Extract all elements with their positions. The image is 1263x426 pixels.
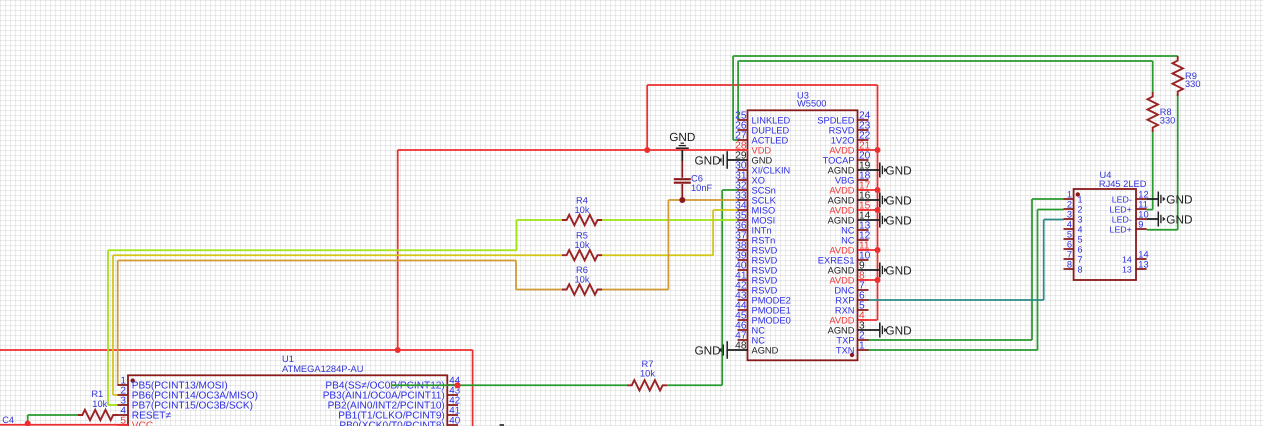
svg-text:14: 14	[1138, 250, 1148, 260]
U3 pin 30 XI/CLKIN	[735, 161, 790, 176]
U4 pin 7	[1064, 250, 1083, 265]
resistor R5 10k	[562, 231, 602, 261]
wire PB5 jog down	[515, 261, 517, 290]
U3 pin 35 MOSI	[735, 211, 775, 226]
wire PB4/SS net from inside U1 to R7	[392, 384, 628, 386]
svg-text:R6: R6	[576, 265, 588, 275]
svg-text:VCC: VCC	[132, 421, 153, 426]
wire R9 to RJ45 LED+ pin 9	[1177, 94, 1179, 230]
svg-text:VDD: VDD	[752, 145, 772, 155]
svg-text:6: 6	[1078, 244, 1083, 254]
junction at U1 pin 44	[454, 382, 460, 388]
wire LINKLED net: top horizontal to R8	[738, 60, 1153, 62]
resistor R9 330	[1173, 56, 1201, 96]
U3 pin 24 SPDLED	[817, 111, 870, 126]
svg-text:GND: GND	[885, 263, 911, 277]
svg-text:GND: GND	[1166, 192, 1192, 206]
U4 pin 10 LED-	[1112, 210, 1149, 225]
U3 pin 42 RSVD	[735, 281, 777, 296]
svg-text:TXP: TXP	[836, 335, 854, 345]
U3 pin 13 NC	[841, 221, 871, 236]
U3 pin 29 GND	[735, 151, 772, 166]
wire VDD vertical drop to pin 28 row	[646, 85, 648, 150]
U4 pin 13 13	[1122, 260, 1149, 275]
U3 pin1-corner dot	[850, 353, 854, 357]
svg-text:2: 2	[1078, 204, 1083, 214]
svg-text:10k: 10k	[640, 368, 655, 378]
U3 pin 41 RSVD	[735, 271, 777, 286]
svg-text:RXP: RXP	[835, 295, 854, 305]
junction AVDD rail pin 17	[875, 187, 881, 193]
svg-text:GND: GND	[885, 323, 911, 337]
resistor R6 10k	[562, 265, 602, 295]
svg-text:6: 6	[1067, 240, 1072, 250]
resistor R1 10k	[78, 389, 118, 420]
U4 pin 14 14	[1122, 250, 1149, 265]
svg-text:RSTn: RSTn	[752, 235, 776, 245]
svg-text:SPDLED: SPDLED	[817, 115, 854, 125]
svg-text:R1: R1	[91, 389, 103, 399]
svg-text:AGND: AGND	[828, 195, 855, 205]
wire AVDD stub connectors to rail	[858, 150, 878, 320]
U4 pin 3	[1064, 210, 1083, 225]
svg-text:C4: C4	[2, 415, 14, 425]
svg-text:PMODE2: PMODE2	[752, 295, 791, 305]
ground symbol at U3 AGND y=170	[858, 163, 912, 178]
U3 pin 48 AGND	[735, 341, 778, 356]
svg-text:AVDD: AVDD	[829, 275, 854, 285]
svg-text:10nF: 10nF	[691, 183, 713, 193]
wire SCLK vertical x=668	[667, 200, 669, 290]
U3 pin 10 EXRES1	[818, 251, 871, 266]
svg-text:R5: R5	[576, 231, 588, 241]
junction AVDD rail pin 11	[875, 247, 881, 253]
wire ACTLED joint into pin 27 stub	[733, 139, 738, 141]
svg-text:13: 13	[1138, 260, 1148, 270]
U3 pin 14 AGND	[828, 211, 871, 226]
U3 pin 1 TXN	[836, 341, 869, 356]
U3 pin 46 NC	[735, 321, 765, 336]
svg-text:10k: 10k	[575, 240, 590, 250]
U3 pin 4 AVDD	[829, 311, 868, 326]
svg-text:5: 5	[1067, 230, 1072, 240]
U1 pin 41 PB1(T1/CLKO/PCINT9)	[338, 406, 460, 422]
U4 pin 9 LED+	[1110, 220, 1147, 235]
U3 pin 15 AVDD	[829, 201, 870, 216]
U3 pin 43 PMODE2	[735, 291, 791, 306]
wire R8 to RJ45 LED+ pin 11	[1152, 131, 1154, 210]
svg-text:XI/CLKIN: XI/CLKIN	[752, 165, 791, 175]
wire TXN net: U3 pin 1 to U4 pin 2	[868, 349, 1038, 351]
svg-text:R7: R7	[642, 359, 654, 369]
svg-text:3: 3	[1067, 210, 1072, 220]
svg-text:DUPLED: DUPLED	[752, 125, 790, 135]
svg-text:MOSI: MOSI	[752, 215, 776, 225]
U3 pin 9 AGND	[828, 261, 865, 276]
wire VCC bottom horizontal to U1 pin 5	[0, 424, 128, 426]
junction AVDD rail pin 8	[875, 277, 881, 283]
ground symbol at U4 pin 12	[1147, 192, 1193, 207]
U3 pin 8 AVDD	[829, 271, 868, 286]
U3 pin 25 LINKLED	[735, 111, 790, 126]
svg-text:MISO: MISO	[752, 205, 776, 215]
wire VCC drop at x=473	[472, 350, 474, 426]
U3 pin 38 RSVD	[735, 241, 777, 256]
svg-text:RSVD: RSVD	[752, 245, 778, 255]
svg-text:DNC: DNC	[834, 285, 854, 295]
svg-text:GND: GND	[1166, 212, 1192, 226]
U3 pin 37 RSTn	[735, 231, 775, 246]
wire PB7/SCK vertical x=108	[107, 250, 109, 405]
U4 pin 5	[1064, 230, 1083, 245]
U3 pin 22 1V2O	[831, 131, 871, 146]
svg-text:13: 13	[1122, 264, 1132, 274]
U3 pin 32 SCSn	[735, 181, 776, 196]
U3 pin 7 DNC	[834, 281, 868, 296]
svg-text:INTn: INTn	[752, 225, 772, 235]
wire PB6/MISO net horizontal y=255	[113, 254, 562, 256]
capacitor C6 10nF	[674, 150, 713, 200]
op-amp U3 W5500 body	[748, 110, 858, 360]
ground symbol at U3 AGND y=220	[858, 213, 912, 228]
svg-text:1V2O: 1V2O	[831, 135, 855, 145]
svg-text:10k: 10k	[575, 205, 590, 215]
wire VDD horizontal into U3 pin 28	[398, 149, 748, 151]
wire VCC long horizontal y=350	[0, 349, 473, 351]
microcontroller U1 ATMEGA1284P-AU body	[128, 375, 447, 426]
svg-text:330: 330	[1185, 79, 1201, 89]
junction VCC at (398,350)	[395, 347, 401, 353]
junction C6 bottom on SCLK wire	[679, 197, 685, 203]
svg-text:AGND: AGND	[828, 215, 855, 225]
svg-text:5: 5	[1078, 234, 1083, 244]
U3 pin 34 MISO	[735, 201, 775, 216]
U3 pin 27 ACTLED	[735, 131, 788, 146]
junction VDD at (647,150)	[644, 147, 650, 153]
U3 pin 6 RXP	[835, 291, 868, 306]
svg-text:LED+: LED+	[1110, 224, 1132, 234]
svg-text:RSVD: RSVD	[829, 125, 855, 135]
U3 pin 33 SCLK	[735, 191, 776, 206]
wire TXP net: U3 pin 2 to U4 pin 1	[868, 339, 1032, 341]
svg-text:TOCAP: TOCAP	[823, 155, 855, 165]
svg-text:AGND: AGND	[828, 325, 855, 335]
resistor R8 330	[1148, 92, 1176, 132]
ground symbol GND above C6	[669, 130, 695, 148]
svg-text:W5500: W5500	[797, 99, 826, 109]
svg-text:GND: GND	[885, 213, 911, 227]
wire PB7/SCK jog up	[516, 220, 518, 250]
wire AVDD rail vertical right of U3	[877, 85, 879, 320]
ground symbol at U3 AGND y=330	[858, 323, 912, 338]
U1 pin1-corner dot	[131, 378, 135, 382]
resistor R7 10k	[627, 359, 667, 391]
svg-text:40: 40	[449, 416, 460, 426]
U4 pin 1	[1064, 190, 1083, 205]
svg-text:AGND: AGND	[752, 345, 779, 355]
svg-text:GND: GND	[752, 155, 773, 165]
U4 pin1-corner dot	[1076, 192, 1080, 196]
svg-text:GND: GND	[694, 343, 720, 357]
svg-text:NC: NC	[841, 235, 855, 245]
U3 pin 44 PMODE1	[735, 301, 791, 316]
U3 pin 39 RSVD	[735, 251, 777, 266]
svg-text:330: 330	[1160, 115, 1176, 125]
svg-text:8: 8	[1067, 260, 1072, 270]
U3 pin 12 NC	[841, 231, 871, 246]
U4 pin 2	[1064, 200, 1083, 215]
svg-text:1: 1	[1067, 190, 1072, 200]
svg-text:2: 2	[1067, 200, 1072, 210]
svg-text:RSVD: RSVD	[752, 285, 778, 295]
U3 pin 31 XO	[735, 171, 765, 186]
svg-text:PMODE1: PMODE1	[752, 305, 791, 315]
wire ACTLED vertical to U3 pin 27	[732, 56, 734, 140]
wire PB7/SCK net horizontal y=250	[108, 249, 517, 251]
svg-text:SCSn: SCSn	[752, 185, 776, 195]
U3 pin 45 PMODE0	[735, 311, 791, 326]
U3 pin 23 RSVD	[829, 121, 871, 136]
svg-text:AVDD: AVDD	[829, 205, 854, 215]
wire into R6 left	[516, 289, 562, 291]
svg-text:EXRES1: EXRES1	[818, 255, 855, 265]
connector U4 RJ45 2LED body	[1074, 189, 1136, 280]
U1 pin 5 VCC	[118, 416, 154, 426]
svg-text:10k: 10k	[575, 274, 590, 284]
svg-text:LED-: LED-	[1112, 214, 1132, 224]
U3 pin 28 VDD	[735, 141, 771, 156]
svg-text:RSVD: RSVD	[752, 275, 778, 285]
wire MISO vertical x=713	[712, 210, 714, 255]
svg-text:SCLK: SCLK	[752, 195, 777, 205]
svg-text:11: 11	[1138, 200, 1148, 210]
U3 pin 16 AGND	[828, 191, 871, 206]
U3 pin 3 AGND	[828, 321, 865, 336]
ground symbol at U3 pin 48 AGND	[694, 341, 748, 359]
wire PB5/MOSI net horizontal y=260.5	[118, 260, 516, 262]
svg-text:U1: U1	[282, 354, 294, 364]
U3 pin 11 AVDD	[829, 241, 870, 256]
svg-text:1: 1	[859, 341, 865, 352]
svg-text:PMODE0: PMODE0	[752, 315, 791, 325]
partial symbol tick at bottom edge	[500, 424, 505, 426]
svg-text:GND: GND	[694, 153, 720, 167]
svg-text:AGND: AGND	[828, 165, 855, 175]
svg-text:AVDD: AVDD	[829, 145, 854, 155]
svg-text:RSVD: RSVD	[752, 265, 778, 275]
svg-text:ATMEGA1284P-AU: ATMEGA1284P-AU	[282, 364, 363, 374]
U4 pin 11 LED+	[1110, 200, 1148, 215]
wire RESET net: R1 left to VCC rail	[28, 414, 78, 416]
wire RXP net: U3 pin 6 to U4 pin 3	[868, 299, 1044, 301]
ground symbol at U4 pin 10	[1147, 212, 1193, 227]
wire R8 top lead from corner	[1152, 61, 1154, 93]
svg-text:RXN: RXN	[835, 305, 855, 315]
U3 pin 2 TXP	[836, 331, 868, 346]
U3 pin 36 INTn	[735, 221, 772, 236]
svg-text:7: 7	[1078, 254, 1083, 264]
svg-text:ACTLED: ACTLED	[752, 135, 789, 145]
svg-text:9: 9	[1138, 220, 1143, 230]
svg-text:GND: GND	[885, 163, 911, 177]
svg-text:10k: 10k	[92, 399, 107, 409]
junction AVDD rail pin 15	[875, 207, 881, 213]
svg-text:NC: NC	[752, 335, 766, 345]
U3 pin 19 AGND	[828, 161, 871, 176]
U4 pin 8	[1064, 260, 1083, 275]
wire SCSn net: R7 right to U3 pin 32	[667, 384, 722, 386]
svg-text:R4: R4	[576, 195, 588, 205]
svg-text:14: 14	[1122, 254, 1132, 264]
svg-text:NC: NC	[752, 325, 766, 335]
svg-text:5: 5	[121, 416, 127, 426]
U1 pin 42 PB2(AIN0/INT2/PCINT10)	[328, 396, 461, 412]
junction AVDD rail pin 21	[875, 147, 881, 153]
ground symbol at U3 pin 29 GND	[694, 151, 748, 169]
svg-text:NC: NC	[841, 225, 855, 235]
svg-text:GND: GND	[669, 130, 695, 144]
svg-text:8: 8	[1078, 264, 1083, 274]
U1 pin 44 PB4(SS≠/OC0B/PCINT12)	[325, 376, 460, 392]
svg-text:LINKLED: LINKLED	[752, 115, 791, 125]
svg-text:3: 3	[1078, 214, 1083, 224]
svg-text:LED+: LED+	[1110, 204, 1132, 214]
svg-text:RSVD: RSVD	[752, 255, 778, 265]
svg-text:4: 4	[1078, 224, 1083, 234]
wire LINKLED vertical to U3 pin 25	[737, 61, 739, 120]
U1 pin 43 PB3(AIN1/OC0A/PCINT11)	[323, 386, 461, 402]
wire PB5 vertical x=118	[117, 261, 119, 386]
svg-text:GND: GND	[885, 193, 911, 207]
U3 pin 21 AVDD	[829, 141, 870, 156]
wire R6 right toward U3	[602, 289, 668, 291]
wire PB6 vertical x=113	[112, 255, 114, 395]
junction VCC at C4 drop	[25, 421, 31, 426]
ground symbol at U3 AGND y=200	[858, 193, 912, 208]
ground symbol at U3 AGND y=270	[858, 263, 912, 278]
wire into R4 left	[517, 219, 563, 221]
U1 pin 2 PB6(PCINT14/OC3A/MISO)	[118, 386, 259, 402]
U4 pin 6	[1064, 240, 1083, 255]
U3 pin 5 RXN	[835, 301, 869, 316]
resistor R4 10k	[562, 195, 602, 225]
wire R4 right to U3 pin 35 MOSI	[602, 219, 738, 221]
wire into U3 pin 34 MISO	[713, 209, 737, 211]
U1 pin 3 PB7(PCINT15/OC3B/SCK)	[118, 396, 253, 412]
svg-text:TXN: TXN	[836, 345, 855, 355]
svg-text:AGND: AGND	[828, 265, 855, 275]
svg-text:AVDD: AVDD	[829, 245, 854, 255]
wire into U3 pin 33 SCLK	[668, 199, 737, 201]
svg-text:AVDD: AVDD	[829, 315, 854, 325]
U3 pin 26 DUPLED	[735, 121, 789, 136]
U4 pin 12 LED-	[1112, 190, 1149, 205]
svg-text:LED-: LED-	[1112, 194, 1132, 204]
svg-text:7: 7	[1067, 250, 1072, 260]
U4 pin 4	[1064, 220, 1083, 235]
svg-text:VBG: VBG	[835, 175, 855, 185]
U3 pin 40 RSVD	[735, 261, 777, 276]
svg-text:1: 1	[1078, 194, 1083, 204]
U3 pin 18 VBG	[835, 171, 871, 186]
wire VDD net: top horizontal to AVDD rail	[647, 84, 877, 86]
svg-text:RJ45 2LED: RJ45 2LED	[1099, 179, 1147, 189]
wire VCC vertical at x=398	[397, 150, 399, 350]
wire R5 right toward U3	[602, 254, 713, 256]
svg-text:PB0(XCK0/T0/PCINT8): PB0(XCK0/T0/PCINT8)	[339, 421, 444, 426]
svg-text:4: 4	[1067, 220, 1072, 230]
wire into U1 pin 2	[113, 394, 118, 396]
U3 pin 47 NC	[735, 331, 765, 346]
U3 pin 20 TOCAP	[823, 151, 871, 166]
U3 pin 17 AVDD	[829, 181, 870, 196]
U1 pin 40 PB0(XCK0/T0/PCINT8)	[339, 416, 460, 426]
U1 pin 4 RESET≠	[118, 406, 172, 422]
U1 pin 1 PB5(PCINT13/MOSI)	[118, 376, 228, 392]
wire into U1 pin 3	[108, 404, 118, 406]
wire ACTLED net: top horizontal to R9	[733, 55, 1178, 57]
svg-text:XO: XO	[752, 175, 765, 185]
svg-text:AVDD: AVDD	[829, 185, 854, 195]
